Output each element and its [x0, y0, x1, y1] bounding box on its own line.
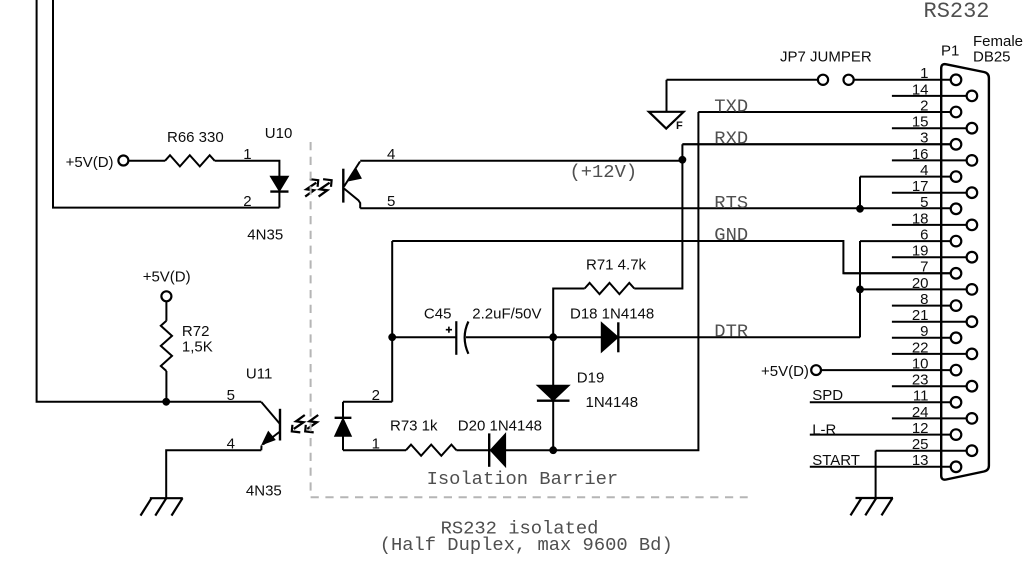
- svg-text:2: 2: [372, 387, 380, 404]
- svg-text:DB25: DB25: [973, 49, 1011, 66]
- svg-text:5: 5: [387, 193, 395, 210]
- svg-text:C45: C45: [424, 306, 452, 323]
- svg-text:18: 18: [912, 210, 929, 227]
- svg-text:12: 12: [912, 420, 929, 437]
- svg-text:13: 13: [912, 452, 929, 469]
- svg-text:2: 2: [243, 193, 251, 210]
- svg-text:8: 8: [920, 291, 928, 308]
- svg-text:Female: Female: [973, 33, 1023, 50]
- svg-text:4N35: 4N35: [246, 482, 282, 499]
- svg-text:D20 1N4148: D20 1N4148: [458, 417, 542, 434]
- svg-text:4: 4: [227, 436, 235, 453]
- svg-text:P1: P1: [941, 43, 959, 60]
- svg-text:GND: GND: [714, 224, 748, 246]
- svg-text:1N4148: 1N4148: [586, 394, 639, 411]
- svg-text:(+12V): (+12V): [570, 161, 638, 183]
- svg-text:10: 10: [912, 355, 929, 372]
- svg-text:1: 1: [920, 65, 928, 82]
- svg-text:L-R: L-R: [812, 422, 836, 439]
- svg-text:+5V(D): +5V(D): [66, 154, 114, 171]
- svg-text:R73 1k: R73 1k: [390, 417, 438, 434]
- svg-text:Isolation Barrier: Isolation Barrier: [427, 468, 619, 490]
- svg-text:21: 21: [912, 307, 929, 324]
- svg-text:19: 19: [912, 243, 929, 260]
- svg-text:U11: U11: [246, 366, 272, 383]
- svg-text:9: 9: [920, 323, 928, 340]
- svg-text:22: 22: [912, 339, 929, 356]
- svg-text:23: 23: [912, 372, 929, 389]
- svg-text:R71 4.7k: R71 4.7k: [586, 257, 647, 274]
- svg-text:F: F: [676, 120, 683, 132]
- svg-text:+5V(D): +5V(D): [143, 269, 191, 286]
- svg-text:1: 1: [243, 146, 251, 163]
- svg-text:4N35: 4N35: [247, 227, 283, 244]
- svg-text:RS232: RS232: [924, 0, 990, 24]
- svg-text:SPD: SPD: [812, 387, 843, 404]
- svg-text:DTR: DTR: [714, 321, 748, 343]
- svg-text:11: 11: [913, 388, 929, 405]
- svg-text:2.2uF/50V: 2.2uF/50V: [472, 306, 541, 323]
- svg-text:4: 4: [920, 162, 928, 179]
- svg-text:1,5K: 1,5K: [182, 338, 213, 355]
- svg-text:24: 24: [912, 404, 929, 421]
- svg-text:TXD: TXD: [714, 95, 748, 117]
- svg-text:4: 4: [387, 146, 395, 163]
- svg-text:6: 6: [920, 227, 928, 244]
- svg-text:25: 25: [912, 436, 929, 453]
- svg-text:20: 20: [912, 275, 929, 292]
- svg-text:1: 1: [372, 436, 380, 453]
- svg-text:+5V(D): +5V(D): [761, 363, 809, 380]
- svg-text:D18 1N4148: D18 1N4148: [570, 306, 654, 323]
- svg-text:17: 17: [912, 178, 929, 195]
- svg-text:16: 16: [912, 146, 929, 163]
- svg-text:R66 330: R66 330: [167, 129, 224, 146]
- svg-text:5: 5: [227, 387, 235, 404]
- svg-text:(Half Duplex, max 9600 Bd): (Half Duplex, max 9600 Bd): [380, 534, 673, 556]
- svg-text:D19: D19: [577, 370, 605, 387]
- svg-text:RTS: RTS: [714, 192, 748, 214]
- svg-text:RXD: RXD: [714, 127, 748, 149]
- svg-text:U10: U10: [265, 125, 293, 142]
- svg-text:15: 15: [912, 114, 929, 131]
- svg-text:START: START: [812, 452, 860, 469]
- svg-text:JP7 JUMPER: JP7 JUMPER: [780, 49, 872, 66]
- svg-text:14: 14: [912, 81, 929, 98]
